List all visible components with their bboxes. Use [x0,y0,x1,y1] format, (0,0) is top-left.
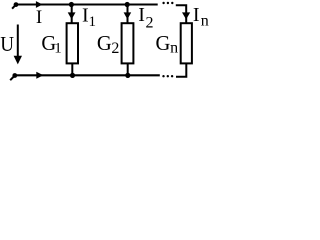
wire branch1 vertical lead [71,5,73,24]
conductance G2 box [122,23,134,63]
terminal tick bottom-left [10,76,15,81]
ellipsis dots bottom rail [162,75,173,77]
node junction dot branch1 top [69,2,74,7]
svg-text:I: I [193,4,200,26]
svg-text:n: n [170,40,178,57]
bottom rail wire [15,74,160,76]
node junction dot branch2 top [125,2,130,7]
wire branch1 bottom lead [71,63,73,75]
conductance Gn box [181,23,192,63]
current arrow I head [36,1,43,8]
top rail wire [16,3,158,5]
return current arrow head on bottom rail [36,72,43,79]
current arrow In head [182,12,190,19]
label U [0,32,14,56]
svg-text:2: 2 [111,40,119,57]
current arrow I2 head [124,12,132,19]
conductance G1 box [67,23,78,63]
node junction dot branch2 bottom [125,73,130,78]
svg-text:I: I [138,4,145,26]
terminal tick top-left [12,5,16,9]
label In [193,4,209,30]
node junction dot branch1 bottom [70,73,75,78]
terminal node dot top-left [14,2,19,7]
voltage arrow U head [14,56,22,65]
current arrow I1 head [68,12,76,19]
svg-text:n: n [201,13,209,30]
wire top-right corner segment [176,5,186,23]
label I2 [138,4,153,31]
svg-text:1: 1 [54,41,62,57]
label G1 [41,33,61,56]
svg-text:2: 2 [146,14,154,31]
terminal node dot bottom-left [12,73,17,78]
label I1 [82,4,96,30]
label I [36,7,42,28]
label Gn [156,33,179,56]
svg-text:1: 1 [89,14,97,30]
svg-text:G: G [97,33,112,55]
svg-text:G: G [156,33,171,55]
label G2 [97,33,120,57]
wire bottom-right corner segment [176,63,186,76]
voltage arrow U stem [17,25,19,58]
ellipsis dots top rail [162,2,173,4]
svg-text:I: I [36,7,42,28]
wire branch2 bottom lead [127,63,129,75]
wire branch2 vertical lead [127,5,129,24]
svg-text:U: U [0,32,14,56]
